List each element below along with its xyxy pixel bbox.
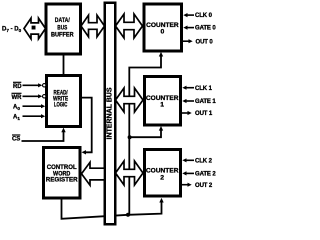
bus arrow internal bus to counter 1 bbox=[116, 88, 144, 112]
bus arrow buffer to internal bus bbox=[81, 15, 105, 37]
label OUT 0 with output arrow bbox=[183, 39, 213, 45]
label RD with overline bbox=[13, 82, 22, 90]
svg-text:GATE 2: GATE 2 bbox=[195, 172, 216, 178]
label GATE 1 with input arrow bbox=[182, 99, 216, 105]
label OUT 2 with output arrow bbox=[182, 183, 213, 189]
input arrow WR bbox=[23, 94, 46, 98]
svg-text:DATA/: DATA/ bbox=[55, 17, 70, 24]
label CS with overline bbox=[12, 135, 20, 143]
svg-text:OUT 0: OUT 0 bbox=[196, 39, 214, 45]
svg-text:BUS: BUS bbox=[57, 24, 67, 31]
label OUT 1 with output arrow bbox=[182, 111, 213, 117]
svg-text:A0: A0 bbox=[13, 105, 20, 111]
label CLK 2 with input arrow bbox=[182, 158, 212, 164]
block COUNTER 1 bbox=[145, 77, 181, 126]
block DATA/BUS BUFFER bbox=[46, 4, 81, 54]
junction dot at bottom wire bbox=[126, 213, 130, 217]
svg-text:GATE 1: GATE 1 bbox=[195, 99, 216, 105]
label WR with overline bbox=[12, 93, 23, 101]
svg-text:WR: WR bbox=[12, 95, 23, 101]
svg-text:0: 0 bbox=[161, 28, 165, 35]
junction dot at counter-1 branch bbox=[128, 135, 132, 139]
svg-text:OUT 2: OUT 2 bbox=[195, 183, 213, 189]
label CLK 1 with input arrow bbox=[182, 86, 212, 92]
block READ/WRITE LOGIC bbox=[47, 76, 81, 127]
label CLK 0 with input arrow bbox=[183, 13, 212, 19]
svg-text:CLK 2: CLK 2 bbox=[195, 158, 213, 164]
svg-text:CS: CS bbox=[12, 137, 20, 143]
svg-text:LOGIC: LOGIC bbox=[54, 102, 68, 109]
bus arrow internal bus to counter 0 bbox=[116, 14, 143, 38]
input arrow RD bbox=[23, 83, 46, 87]
block COUNTER 2 bbox=[145, 150, 181, 197]
block CONTROL WORD REGISTER bbox=[44, 148, 81, 199]
wire CS to read/write logic bbox=[22, 128, 66, 141]
svg-text:1: 1 bbox=[160, 102, 164, 109]
wire control word register to counters (bottom) bbox=[62, 198, 164, 219]
label GATE 2 with input arrow bbox=[182, 171, 216, 177]
wire trunk control line bbox=[129, 52, 163, 215]
svg-text:A1: A1 bbox=[13, 115, 20, 121]
svg-text:CLK 0: CLK 0 bbox=[195, 13, 213, 19]
data bus fat arrow D7-D0 bbox=[24, 18, 46, 39]
bus arrow internal bus to counter 2 bbox=[116, 161, 144, 185]
svg-text:INTERNAL BUS: INTERNAL BUS bbox=[107, 87, 114, 139]
svg-text:RD: RD bbox=[13, 84, 22, 90]
block COUNTER 0 bbox=[144, 4, 182, 51]
svg-text:2: 2 bbox=[160, 175, 164, 182]
svg-text:BUFFER: BUFFER bbox=[51, 32, 74, 39]
input arrow A1 bbox=[23, 114, 46, 118]
wire read/write logic to control word register bbox=[81, 98, 92, 155]
svg-text:CLK 1: CLK 1 bbox=[195, 86, 213, 92]
input arrow A0 bbox=[23, 104, 46, 108]
data bus width marker bbox=[32, 26, 36, 30]
svg-text:D7 - D0: D7 - D0 bbox=[2, 27, 22, 33]
bus arrow internal bus to control word register bbox=[82, 162, 105, 185]
internal bus bar bbox=[105, 3, 116, 225]
svg-text:OUT 1: OUT 1 bbox=[195, 111, 213, 117]
svg-text:REGISTER: REGISTER bbox=[46, 177, 78, 184]
label GATE 0 with input arrow bbox=[183, 26, 216, 32]
wire buffer to read/write logic bbox=[63, 54, 65, 76]
wire branch to counter 1 bbox=[130, 126, 164, 137]
svg-text:GATE 0: GATE 0 bbox=[195, 26, 216, 32]
